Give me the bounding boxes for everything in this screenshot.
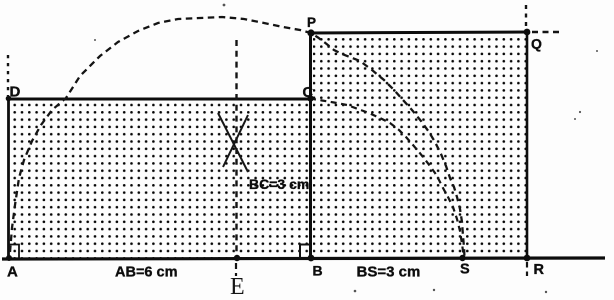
right angle mark at A: [9, 245, 19, 259]
point D: [6, 96, 12, 102]
svg-text:B: B: [313, 263, 323, 279]
square right edge QR: [526, 31, 529, 259]
svg-text:S: S: [460, 262, 470, 278]
point Q: [524, 29, 531, 36]
svg-text:E: E: [230, 274, 245, 300]
rectangle left edge AD: [7, 97, 10, 259]
baseline A-B-S-R extended: [2, 258, 605, 259]
dashed extension above D: [7, 55, 9, 96]
svg-text:A: A: [7, 264, 18, 281]
dashed extension right of Q: [532, 31, 560, 33]
dashed vertical line through E (perpendicular bisector of AS): [235, 40, 237, 257]
svg-text:BC=3 cm: BC=3 cm: [249, 176, 309, 192]
svg-text:D: D: [10, 84, 21, 101]
svg-text:C: C: [303, 85, 314, 101]
svg-text:Q: Q: [531, 36, 542, 52]
point C: [307, 95, 313, 101]
svg-text:P: P: [307, 15, 316, 30]
dotted fill square BPQR: [313, 35, 526, 258]
point R: [524, 255, 531, 262]
line BP (common edge): [309, 33, 312, 259]
dashed arc from C to S (center B, BS=BC): [310, 99, 464, 259]
rectangle top edge DC: [7, 98, 312, 101]
dashed tick below E: [235, 263, 237, 276]
dotted fill rectangle ABCD: [10, 100, 309, 258]
dashed extension above Q: [525, 5, 527, 29]
dashed tick below R: [526, 262, 528, 276]
svg-text:BS=3 cm: BS=3 cm: [357, 264, 421, 281]
point E (centre of semicircle): [234, 255, 240, 261]
svg-text:R: R: [534, 262, 545, 278]
right angle mark at B: [300, 245, 310, 259]
svg-text:AB=6 cm: AB=6 cm: [115, 265, 177, 281]
point S: [459, 255, 465, 261]
point B: [308, 255, 315, 262]
stray scan specks: [94, 4, 598, 294]
square top edge PQ: [309, 32, 528, 33]
point P: [307, 29, 314, 36]
X compass mark on bisector: [218, 113, 248, 172]
dashed semicircle on AS through P: [10, 17, 465, 258]
point A: [6, 255, 12, 261]
